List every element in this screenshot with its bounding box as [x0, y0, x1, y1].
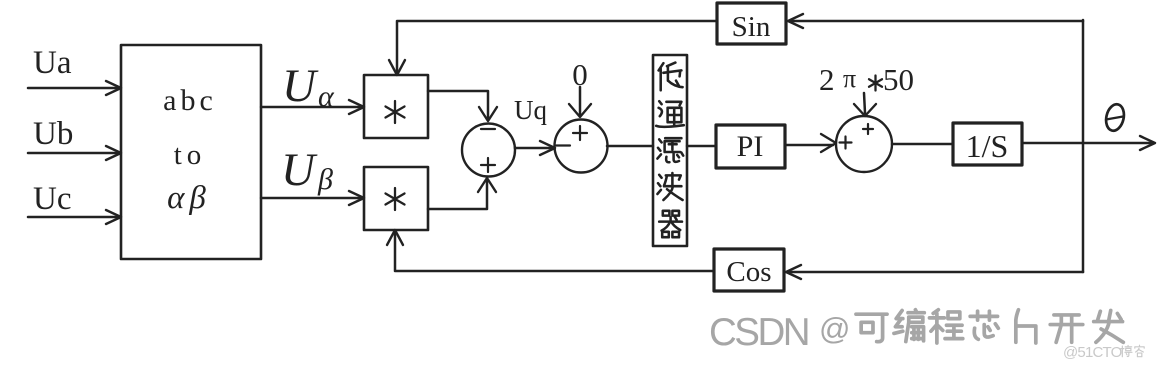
svg-text:Uc: Uc	[33, 181, 71, 217]
svg-text:to: to	[174, 139, 207, 171]
svg-text:U: U	[281, 144, 318, 196]
svg-text:PI: PI	[737, 130, 764, 163]
svg-text:Ub: Ub	[33, 116, 73, 152]
svg-text:Uq: Uq	[514, 95, 547, 125]
svg-text:α: α	[318, 80, 335, 113]
svg-text:1/S: 1/S	[966, 128, 1009, 164]
svg-text:Ua: Ua	[33, 45, 72, 81]
svg-text:@51CTO: @51CTO	[1063, 344, 1122, 361]
svg-text:β: β	[317, 163, 333, 196]
svg-text:U: U	[282, 60, 319, 112]
svg-text:Sin: Sin	[732, 11, 771, 43]
svg-text:@: @	[819, 311, 850, 346]
svg-text:CSDN: CSDN	[709, 311, 808, 354]
svg-text:50: 50	[883, 62, 914, 97]
svg-text:αβ: αβ	[167, 180, 211, 216]
svg-text:abc: abc	[163, 84, 217, 117]
svg-text:π: π	[843, 64, 856, 93]
svg-text:Cos: Cos	[726, 256, 771, 288]
svg-text:2: 2	[819, 62, 835, 97]
svg-text:0: 0	[572, 57, 588, 92]
